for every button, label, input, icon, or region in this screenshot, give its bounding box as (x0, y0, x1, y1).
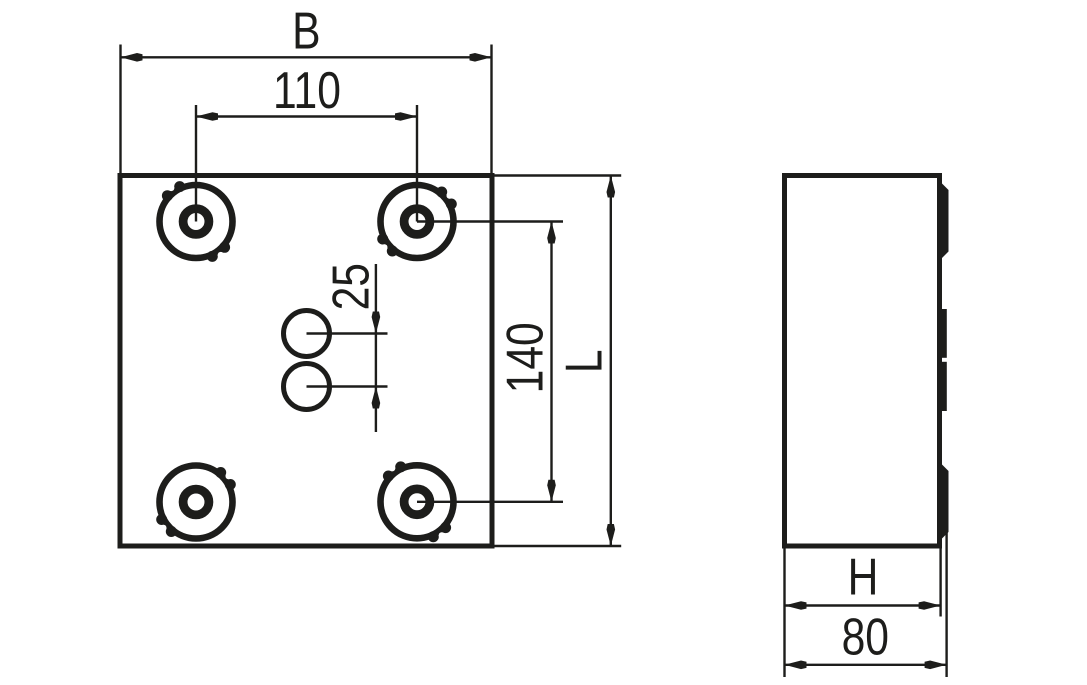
dimension H extension line right (939, 531, 941, 617)
dimension L arrow bottom (607, 524, 616, 546)
dimension 110 extension line right (hole TR centreline) (416, 105, 418, 222)
dimension 80 arrow right (925, 661, 947, 670)
port circle lower (284, 364, 330, 410)
hole TL bore (183, 209, 209, 235)
dimension B arrow left (121, 53, 143, 62)
dimension L arrow top (607, 176, 616, 198)
dimension L line (610, 176, 612, 547)
dimension B extension line left (119, 45, 121, 174)
hole TR bore (404, 209, 430, 235)
side view lower port boss (940, 362, 947, 411)
dimension 140 extension line bottom (hole BR centreline) (417, 501, 563, 503)
svg-text:H: H (848, 549, 879, 607)
dimension 80 arrow left (785, 661, 807, 670)
hole TL outer ring (160, 181, 233, 262)
dimension H arrow left (785, 601, 807, 610)
dimension H extension line left (783, 549, 785, 678)
dimension 25 arrow lower (372, 387, 381, 409)
dimension 110 arrow right (395, 112, 417, 121)
hole TR outer ring (377, 185, 457, 258)
hole BR outer ring (381, 461, 454, 542)
dimension 110 extension line left (hole TL centreline) (195, 105, 197, 222)
dimension 140 extension line top (hole TR centreline) (417, 220, 563, 222)
dimension H arrow right (919, 601, 941, 610)
dimension B arrow right (470, 53, 492, 62)
dimension B extension line right (490, 45, 492, 174)
svg-text:110: 110 (273, 62, 341, 120)
dimension 110 arrow left (196, 112, 218, 121)
svg-text:25: 25 (323, 263, 381, 310)
dimension L extension line bottom (492, 545, 621, 547)
port circle upper (284, 311, 330, 357)
dimension 110 line (196, 115, 417, 117)
svg-text:B: B (292, 3, 320, 61)
svg-text:80: 80 (842, 609, 889, 667)
port centre leader upper (307, 332, 388, 334)
hole BL outer ring (156, 466, 236, 539)
dimension 140 arrow top (547, 222, 556, 244)
side view top flange boss (940, 184, 949, 259)
dimension 80 line (785, 664, 947, 666)
side view body (785, 176, 940, 547)
plate outline (front view) (120, 176, 492, 547)
svg-text:L: L (556, 349, 614, 373)
dimension 25 arrow upper (372, 312, 381, 334)
dimension 80 extension line right (945, 531, 947, 677)
dimension H line (785, 604, 941, 606)
hole BL bore (183, 489, 209, 515)
svg-text:140: 140 (497, 322, 555, 393)
dimension 25 line (375, 264, 377, 432)
dimension B line (121, 56, 492, 58)
port centre leader lower (307, 385, 388, 387)
dimension 140 arrow bottom (547, 480, 556, 502)
side view bottom flange boss (940, 465, 949, 539)
hole BR bore (404, 489, 430, 515)
side view upper port boss (940, 309, 947, 358)
dimension 140 line (550, 222, 552, 502)
dimension L extension line top (492, 174, 621, 176)
